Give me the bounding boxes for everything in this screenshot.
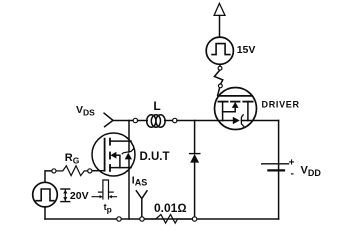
driver rail diode cathode to drain stem [241, 120, 248, 122]
wire V2 to terminal [219, 64, 221, 66]
driver drain stem [247, 102, 249, 121]
DUT channel segment source [109, 165, 111, 171]
svg-text:D.U.T: D.U.T [140, 151, 170, 163]
driver channel segment source [218, 101, 227, 103]
driver rail source to diode anode [223, 120, 234, 122]
pulse waveform inside V2 [212, 44, 230, 55]
driver gate bar [218, 95, 252, 97]
wire from inductor [165, 120, 173, 122]
pulse source V2 circle [206, 37, 233, 64]
DUT channel segment body [109, 153, 111, 159]
terminal circle bottom of twisted lead [219, 84, 223, 88]
DUT circle body [92, 133, 135, 176]
DUT drain bar [110, 140, 131, 142]
terminal circle diode node [192, 217, 196, 221]
gate pulse baseline stub right [109, 191, 114, 193]
freewheel diode cathode bar [190, 153, 200, 155]
svg-text:15V: 15V [237, 44, 256, 56]
gate pulse annotation waveform [103, 180, 109, 199]
driver body arrow tail [223, 108, 236, 112]
freewheel diode branch wire upper [194, 121, 196, 154]
svg-text:DRIVER: DRIVER [262, 99, 300, 109]
svg-text:20V: 20V [70, 190, 89, 202]
bottom rail wire [45, 218, 279, 220]
terminal circle top of twisted lead [218, 66, 222, 70]
amplitude arrowheads [63, 190, 67, 201]
terminal circle inductor left [133, 118, 137, 122]
driver channel segment body [231, 101, 240, 103]
driver body diode zener bar [241, 115, 243, 126]
wire right rail down to battery [278, 121, 280, 220]
inductor L loops [147, 115, 156, 128]
driver circle body [215, 88, 257, 130]
DUT body arrow tail [116, 155, 120, 167]
terminal circle RG right [88, 169, 92, 173]
terminal circle IAS node [140, 217, 144, 221]
battery V_DD plate positive [262, 163, 289, 165]
V_DS probe arrow [104, 113, 113, 127]
twisted lead squiggle [214, 70, 222, 84]
battery V_DD plate negative [268, 169, 284, 171]
pulse waveform inside V1 [36, 189, 54, 201]
freewheel diode branch wire lower [194, 163, 196, 217]
DUT body arrow [110, 152, 116, 159]
resistor RG zigzag [56, 166, 88, 176]
supply arrow (to +15V rail) [214, 3, 225, 15]
DUT body diode lead upper [128, 141, 130, 152]
svg-text:+: + [289, 157, 295, 168]
wire DUT source to bottom rail [128, 168, 130, 219]
DUT gate lead [92, 170, 105, 172]
DUT gate bar [104, 139, 106, 171]
wire pulse generator to bottom rail [44, 207, 46, 219]
driver body diode triangle [233, 117, 240, 125]
wire arrow to pulse source [219, 15, 221, 37]
driver channel segment drain [243, 101, 252, 103]
wire top rail left [113, 120, 134, 122]
driver source stem [222, 102, 224, 121]
DUT body diode lead lower [128, 159, 130, 167]
DUT body diode zener bar [122, 149, 133, 154]
wire to inductor [138, 120, 148, 122]
DUT MOSFET Q1 [92, 133, 135, 176]
terminal circle sense left [117, 217, 121, 221]
wire driver drain to right rail [248, 120, 279, 122]
svg-text:0.01Ω: 0.01Ω [154, 201, 187, 215]
amplitude bar bottom [61, 201, 70, 203]
tp arrow right [112, 196, 117, 198]
terminal circle inductor right [173, 118, 177, 122]
wire DUT drain to top rail [128, 121, 130, 142]
IAS probe fork [136, 191, 147, 217]
amplitude arrow shaft [64, 190, 66, 201]
svg-text:-: - [291, 169, 294, 180]
pulse generator V1 circle [33, 182, 58, 207]
DUT channel segment drain [109, 139, 111, 145]
wire to driver gate [218, 88, 220, 96]
driver MOSFET Q2 [215, 88, 257, 130]
tp arrow left [92, 196, 100, 198]
freewheel diode triangle [190, 154, 199, 163]
DUT body diode triangle [125, 153, 132, 160]
driver body arrow [232, 102, 239, 108]
amplitude bar top [61, 188, 70, 190]
DUT source bar [110, 167, 131, 169]
gate pulse baseline stub left [99, 191, 103, 193]
terminal circle RG left [52, 169, 56, 173]
svg-text:L: L [153, 99, 160, 113]
wire top rail to driver [177, 120, 223, 122]
wire RG to pulse generator [45, 171, 52, 182]
resistor 0.01 ohm zigzag [145, 215, 193, 224]
